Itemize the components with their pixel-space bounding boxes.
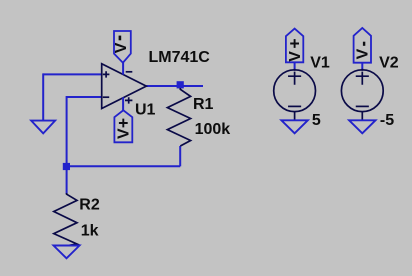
- voltage source V2 top lead: [361, 69, 363, 71]
- voltage source V1 top lead: [294, 69, 296, 71]
- wire stub V- flag to op-amp: [122, 62, 124, 75]
- svg-text:V2: V2: [379, 55, 399, 72]
- flag V+ above V1: [286, 29, 303, 63]
- svg-text:V: V: [116, 128, 133, 139]
- wire stub V2 flag: [361, 63, 363, 69]
- svg-text:-5: -5: [380, 112, 394, 129]
- ground G3 below V1: [281, 120, 307, 133]
- op-amp U1 triangle: [102, 64, 147, 109]
- op-amp inverting input mark: [103, 96, 109, 98]
- svg-text:R1: R1: [193, 96, 214, 113]
- wire feedback bottom horizontal: [66, 165, 180, 167]
- resistor R2 zigzag: [54, 193, 77, 246]
- wire output: [146, 85, 203, 87]
- wire inverting input vertical: [66, 96, 68, 166]
- flag V- above V2: [354, 28, 371, 63]
- ground G4 below V2: [349, 120, 375, 133]
- flag V+ below op-amp: [114, 110, 132, 142]
- op-amp V+ supply mark: [125, 97, 132, 103]
- svg-text:LM741C: LM741C: [149, 49, 211, 66]
- wire R2 top lead: [66, 166, 68, 194]
- svg-text:100k: 100k: [195, 121, 231, 138]
- svg-text:5: 5: [312, 112, 321, 129]
- op-amp noninverting input mark: [103, 71, 110, 77]
- wire inverting input horizontal: [67, 96, 103, 98]
- flag V- above op-amp: [114, 31, 131, 63]
- svg-text:V: V: [355, 48, 372, 59]
- V1 plus mark: [288, 72, 301, 85]
- voltage source V1 bottom lead: [294, 112, 296, 121]
- wire stub V1 flag: [294, 62, 296, 69]
- wire noninverting input vertical to ground: [42, 73, 44, 120]
- voltage source V1 circle: [274, 70, 316, 112]
- svg-text:V: V: [287, 51, 304, 62]
- wire noninverting input horizontal: [43, 73, 102, 75]
- V1 minus mark: [288, 105, 301, 107]
- V2 minus mark: [356, 105, 369, 107]
- ground G1: [31, 121, 55, 134]
- svg-text:U1: U1: [135, 101, 156, 118]
- svg-text:R2: R2: [79, 197, 100, 214]
- svg-text:V: V: [113, 42, 130, 53]
- svg-text:V1: V1: [310, 55, 330, 72]
- svg-text:1k: 1k: [81, 223, 99, 240]
- junction output node: [177, 81, 184, 88]
- voltage source V2 bottom lead: [361, 112, 363, 121]
- resistor R1 zigzag: [167, 88, 190, 146]
- voltage source V2 circle: [341, 70, 383, 112]
- junction feedback node: [63, 163, 70, 170]
- wire stub op-amp to V+ flag: [122, 97, 124, 111]
- wire R1 bottom lead: [179, 146, 181, 166]
- V2 plus mark: [356, 72, 369, 85]
- ground G2 below R2: [54, 246, 80, 259]
- op-amp V- supply mark: [126, 71, 133, 73]
